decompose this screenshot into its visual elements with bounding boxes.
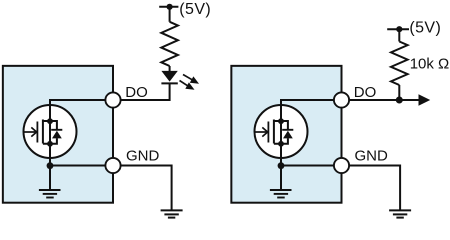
- svg-text:(5V): (5V): [179, 1, 211, 18]
- svg-text:DO: DO: [125, 84, 148, 101]
- svg-text:GND: GND: [355, 148, 389, 165]
- svg-text:(5V): (5V): [409, 19, 441, 36]
- svg-text:DO: DO: [354, 84, 377, 101]
- svg-text:GND: GND: [126, 148, 160, 165]
- svg-text:10k Ω: 10k Ω: [410, 55, 450, 72]
